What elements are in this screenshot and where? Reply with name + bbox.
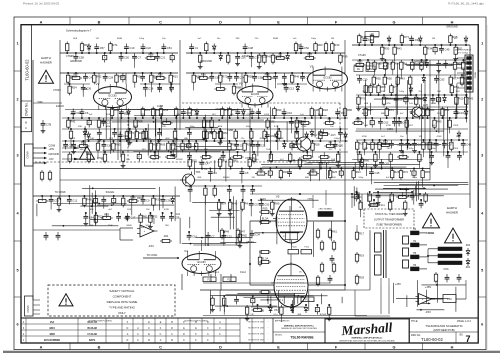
svg-text:470K: 470K [172, 149, 178, 151]
svg-text:C39: C39 [254, 56, 259, 60]
svg-text:33K: 33K [364, 148, 368, 150]
svg-text:C1: C1 [195, 46, 199, 50]
svg-text:E: E [277, 20, 280, 24]
svg-text:HT2: HT2 [203, 168, 208, 171]
svg-text:B250K: B250K [277, 138, 284, 140]
svg-text:B: B [98, 20, 101, 24]
svg-text:R88: R88 [236, 86, 241, 90]
svg-text:10K: 10K [90, 138, 94, 140]
svg-text:SH14: SH14 [428, 232, 435, 235]
svg-text:33K: 33K [162, 126, 166, 128]
svg-text:33K: 33K [362, 91, 366, 93]
svg-text:C57: C57 [254, 203, 259, 207]
svg-text:DENBIGH RD. BLETCHLEY. MILTON: DENBIGH RD. BLETCHLEY. MILTON KEYNES [281, 328, 318, 330]
svg-text:220K: 220K [108, 225, 114, 227]
svg-text:R92: R92 [376, 77, 381, 81]
svg-text:100p: 100p [399, 91, 405, 93]
svg-text:68K: 68K [381, 113, 385, 115]
svg-text:-15V: -15V [425, 310, 431, 314]
svg-text:2: 2 [16, 97, 18, 101]
svg-text:R28: R28 [315, 143, 320, 147]
svg-text:C35: C35 [54, 199, 59, 203]
svg-text:3: 3 [16, 153, 18, 157]
svg-text:+15V: +15V [148, 214, 155, 218]
svg-text:TO CON8: TO CON8 [55, 191, 66, 194]
svg-text:C1BB: C1BB [157, 105, 164, 108]
svg-text:9304: 9304 [49, 327, 55, 330]
svg-text:C22: C22 [227, 235, 232, 239]
svg-text:VR: VR [279, 177, 282, 179]
svg-text:C61: C61 [385, 162, 390, 166]
svg-text:TO CON4: TO CON4 [458, 52, 468, 54]
svg-text:C42: C42 [466, 143, 471, 147]
svg-text:CN1: CN1 [158, 88, 163, 91]
svg-text:1: 1 [16, 41, 18, 45]
svg-text:H: H [451, 20, 454, 24]
svg-text:100p: 100p [358, 177, 364, 179]
svg-text:R24: R24 [72, 86, 77, 90]
svg-text:R10: R10 [386, 97, 391, 101]
svg-text:R29: R29 [359, 276, 364, 280]
svg-text:SAFETY CRITICAL: SAFETY CRITICAL [109, 289, 135, 293]
svg-text:R90: R90 [277, 108, 282, 112]
svg-text:CHG: CHG [443, 268, 448, 271]
svg-text:100p: 100p [190, 126, 196, 128]
svg-text:5: 5 [16, 268, 18, 272]
svg-text:R7: R7 [394, 85, 398, 89]
svg-text:R22: R22 [430, 108, 435, 112]
svg-text:C: C [159, 346, 162, 350]
svg-text:C7: C7 [138, 56, 142, 60]
svg-text:VR: VR [454, 103, 457, 105]
svg-text:FT1&5: FT1&5 [358, 54, 366, 57]
svg-text:F1L8: F1L8 [292, 247, 298, 249]
svg-text:A1H: A1H [423, 104, 428, 107]
svg-text:C: C [159, 20, 162, 24]
svg-text:FT845: FT845 [53, 89, 61, 92]
svg-text:B: B [25, 121, 27, 125]
svg-text:R39: R39 [343, 55, 348, 59]
svg-text:R75: R75 [361, 97, 366, 101]
svg-text:R70: R70 [232, 108, 237, 112]
svg-text:R43: R43 [397, 47, 402, 51]
svg-text:R48: R48 [87, 198, 92, 202]
svg-text:EARTH: EARTH [447, 206, 457, 210]
svg-text:C21: C21 [176, 213, 181, 216]
svg-text:V5: V5 [276, 195, 280, 199]
svg-text:R34: R34 [427, 47, 432, 51]
svg-text:C10: C10 [129, 46, 134, 50]
svg-text:100p: 100p [409, 148, 415, 150]
svg-text:G: G [393, 346, 396, 350]
svg-text:R84: R84 [418, 97, 423, 101]
svg-text:DIRECT INJECT: DIRECT INJECT [455, 50, 472, 52]
svg-text:A: A [40, 346, 43, 350]
svg-text:TYPE AND RATING: TYPE AND RATING [109, 306, 136, 310]
svg-text:5: 5 [481, 268, 483, 272]
svg-text:R11: R11 [222, 159, 227, 163]
svg-text:GROUND: GROUND [70, 59, 82, 63]
svg-text:470K: 470K [362, 136, 368, 138]
svg-text:R58: R58 [425, 170, 430, 174]
svg-text:470K: 470K [301, 126, 307, 128]
svg-text:STOCK No. TXEP-00000: STOCK No. TXEP-00000 [375, 213, 404, 216]
svg-text:R50: R50 [384, 47, 389, 51]
svg-text:F1L1: F1L1 [213, 271, 219, 274]
svg-text:C28: C28 [108, 76, 113, 80]
svg-text:10K: 10K [152, 159, 156, 161]
svg-text:TO CON1: TO CON1 [146, 254, 158, 257]
svg-text:C11: C11 [261, 144, 266, 148]
svg-text:C31: C31 [415, 38, 420, 42]
svg-text:C1B1: C1B1 [387, 128, 394, 131]
svg-text:C19: C19 [459, 111, 464, 115]
svg-text:17-03-98: 17-03-98 [87, 333, 97, 336]
svg-text:68K: 68K [197, 177, 201, 179]
svg-text:C10: C10 [192, 235, 197, 239]
svg-text:BIAS: BIAS [260, 198, 266, 201]
svg-text:A1M: A1M [106, 125, 111, 128]
svg-text:R17: R17 [359, 232, 364, 236]
svg-text:05-06-98: 05-06-98 [87, 327, 97, 330]
svg-text:R69: R69 [381, 85, 386, 89]
svg-text:GROUND: GROUND [200, 59, 212, 63]
svg-text:33K: 33K [78, 126, 82, 128]
svg-text:C7B: C7B [46, 123, 51, 127]
svg-text:CON5: CON5 [26, 305, 30, 313]
svg-text:HT3: HT3 [308, 198, 313, 201]
svg-text:MARSHALL AMPLIFICATION PLC: MARSHALL AMPLIFICATION PLC [284, 324, 315, 327]
svg-text:470K: 470K [164, 209, 170, 211]
svg-text:F1L1: F1L1 [305, 247, 311, 249]
svg-text:C65: C65 [368, 38, 373, 42]
svg-text:ZD2: ZD2 [466, 244, 471, 247]
svg-text:C62: C62 [383, 121, 388, 125]
svg-text:ZD1: ZD1 [466, 266, 471, 269]
svg-text:100p: 100p [431, 148, 437, 150]
svg-text:33K: 33K [204, 149, 208, 151]
svg-text:R50: R50 [387, 77, 392, 81]
svg-text:1M: 1M [331, 38, 334, 40]
svg-text:B: B [98, 346, 101, 350]
svg-text:R85: R85 [160, 143, 165, 147]
svg-text:EARTH: EARTH [41, 56, 50, 60]
svg-text:R23: R23 [173, 75, 178, 79]
svg-text:R38: R38 [314, 108, 319, 112]
svg-text:470K: 470K [70, 114, 76, 116]
svg-text:F1L: F1L [207, 279, 212, 282]
svg-text:68K: 68K [177, 114, 181, 116]
svg-text:C58: C58 [79, 56, 84, 60]
svg-text:VR: VR [96, 38, 99, 40]
svg-text:VR: VR [419, 136, 422, 138]
svg-text:NOTES FOR USE: NOTES FOR USE [248, 322, 264, 324]
svg-text:33K: 33K [203, 159, 207, 161]
svg-text:C50: C50 [264, 203, 269, 207]
svg-text:R23: R23 [356, 170, 361, 174]
svg-text:TSL60 RANGE: TSL60 RANGE [290, 336, 314, 340]
svg-text:CON9: CON9 [26, 151, 30, 159]
svg-text:FT8&5: FT8&5 [66, 55, 74, 58]
svg-text:15A: 15A [50, 321, 55, 324]
svg-text:470K: 470K [264, 114, 270, 116]
svg-text:-15V: -15V [148, 244, 154, 248]
svg-text:R30: R30 [156, 198, 161, 202]
svg-text:R18: R18 [323, 108, 328, 112]
svg-text:DRG No:: DRG No: [411, 334, 421, 337]
svg-text:560R: 560R [117, 38, 123, 40]
svg-text:C9: C9 [146, 199, 150, 203]
svg-text:7: 7 [465, 334, 470, 344]
svg-text:R76: R76 [145, 108, 150, 112]
svg-text:6: 6 [481, 322, 483, 326]
svg-text:100p: 100p [146, 138, 152, 140]
svg-text:R49: R49 [224, 230, 229, 234]
svg-text:+15V: +15V [425, 285, 432, 289]
svg-text:R45: R45 [437, 120, 442, 124]
svg-text:R42: R42 [468, 97, 473, 101]
svg-text:Printed: 16 Jul 2003 09:05: Printed: 16 Jul 2003 09:05 [23, 2, 59, 6]
svg-text:ECC83: ECC83 [323, 76, 332, 79]
svg-text:68K: 68K [159, 114, 163, 116]
svg-text:C16: C16 [287, 111, 292, 115]
svg-text:C7: C7 [211, 235, 215, 239]
svg-text:FT5&5D: FT5&5D [246, 157, 255, 160]
svg-text:VR6: VR6 [298, 120, 303, 123]
svg-text:1: 1 [481, 41, 483, 45]
svg-text:R74: R74 [113, 43, 118, 47]
svg-text:C50: C50 [124, 56, 129, 60]
svg-text:VR: VR [252, 177, 255, 179]
svg-text:100p: 100p [246, 126, 252, 128]
svg-text:33K: 33K [89, 225, 93, 227]
svg-text:50M: 50M [38, 101, 43, 104]
svg-text:ECS NUMBER: ECS NUMBER [44, 339, 60, 342]
svg-text:GROUND: GROUND [446, 25, 458, 29]
svg-text:100p: 100p [412, 177, 418, 179]
svg-text:R82: R82 [242, 234, 247, 238]
svg-text:68K: 68K [305, 177, 309, 179]
svg-text:C22: C22 [146, 46, 151, 50]
svg-text:-15V: -15V [49, 158, 54, 161]
svg-text:R86: R86 [347, 108, 352, 112]
svg-text:TL60-60-02: TL60-60-02 [421, 337, 443, 342]
svg-text:R63: R63 [318, 43, 323, 47]
svg-text:470K: 470K [453, 148, 459, 150]
svg-text:C21: C21 [160, 56, 165, 60]
svg-text:COMPONENT: COMPONENT [113, 295, 132, 299]
svg-text:47K: 47K [71, 138, 75, 140]
svg-text:R40: R40 [232, 202, 237, 206]
svg-text:C47: C47 [205, 162, 210, 166]
svg-text:A1M: A1M [134, 125, 139, 128]
svg-text:NOTES FOR USE: NOTES FOR USE [248, 340, 264, 342]
svg-text:R65: R65 [323, 131, 328, 135]
svg-text:A1H: A1H [331, 134, 336, 137]
svg-text:33K: 33K [381, 91, 385, 93]
svg-text:68K: 68K [184, 138, 188, 140]
svg-text:R53: R53 [163, 108, 168, 112]
svg-text:R61: R61 [332, 230, 337, 234]
svg-text:R24: R24 [164, 235, 169, 238]
svg-text:C66: C66 [215, 76, 220, 80]
svg-text:C34: C34 [255, 233, 260, 237]
svg-text:R32: R32 [377, 62, 382, 66]
svg-text:470K: 470K [436, 136, 442, 138]
svg-text:+15V: +15V [49, 148, 55, 151]
svg-text:560R: 560R [273, 38, 279, 40]
svg-text:C3: C3 [107, 121, 111, 125]
svg-text:ONLY: ONLY [118, 311, 126, 315]
svg-text:C13: C13 [289, 87, 294, 91]
svg-text:C45: C45 [375, 171, 380, 175]
svg-text:TR1: TR1 [312, 134, 317, 137]
svg-text:C20: C20 [363, 78, 368, 82]
svg-text:R1: R1 [298, 43, 302, 47]
svg-text:(MOTHER PCB): (MOTHER PCB) [433, 328, 454, 332]
svg-text:+25V: +25V [395, 283, 401, 286]
svg-text:MARSHALL AMPLIFICATION plc: MARSHALL AMPLIFICATION plc [352, 337, 384, 340]
svg-text:C12: C12 [72, 199, 77, 203]
svg-text:33K: 33K [194, 114, 198, 116]
svg-text:C30: C30 [338, 144, 343, 148]
svg-text:R77: R77 [453, 77, 458, 81]
svg-text:CONN: CONN [475, 71, 477, 78]
svg-text:1M: 1M [432, 38, 435, 40]
svg-text:C1B: C1B [83, 88, 88, 91]
svg-text:C48: C48 [248, 46, 253, 50]
svg-text:ECC83: ECC83 [108, 94, 117, 97]
svg-text:R19: R19 [359, 254, 364, 258]
svg-text:R95: R95 [233, 159, 238, 163]
svg-text:APPROVED BY:: APPROVED BY: [275, 319, 290, 322]
svg-text:HASHER: HASHER [40, 61, 52, 65]
svg-text:P:\TL60_60_02_1443.dgn: P:\TL60_60_02_1443.dgn [448, 2, 484, 6]
svg-text:C18B: C18B [227, 129, 233, 132]
svg-text:10K: 10K [222, 138, 226, 140]
svg-text:33K: 33K [80, 149, 84, 151]
svg-text:100p: 100p [145, 225, 151, 227]
svg-text:ECC83: ECC83 [251, 93, 260, 96]
svg-text:R64: R64 [114, 108, 119, 112]
svg-text:H: H [451, 346, 454, 350]
svg-text:R47: R47 [240, 230, 245, 234]
svg-text:V6: V6 [274, 308, 278, 312]
svg-text:MODEL:: MODEL: [275, 334, 283, 336]
svg-text:HT5: HT5 [370, 33, 375, 36]
svg-text:220K: 220K [453, 125, 459, 127]
svg-text:100p: 100p [139, 38, 145, 40]
svg-text:EL3A: EL3A [262, 217, 269, 221]
svg-text:F1L2: F1L2 [240, 271, 246, 274]
svg-text:R66: R66 [364, 159, 369, 163]
svg-text:A1M: A1M [362, 112, 367, 115]
svg-text:R74: R74 [389, 108, 394, 112]
svg-text:DATE: DATE [89, 339, 96, 342]
svg-text:R4: R4 [245, 202, 249, 206]
svg-text:33K: 33K [128, 138, 132, 140]
svg-text:DWG No.: DWG No. [24, 102, 28, 116]
svg-text:C18: C18 [148, 87, 153, 91]
svg-text:1808: 1808 [49, 333, 55, 336]
svg-text:A (THROUGH PLATES): A (THROUGH PLATES) [88, 320, 112, 323]
svg-text:B250K: B250K [176, 159, 183, 161]
svg-text:560R: 560R [431, 103, 437, 105]
svg-text:C63: C63 [440, 78, 445, 82]
svg-text:C57: C57 [100, 46, 105, 50]
svg-text:1M: 1M [146, 209, 149, 211]
svg-text:C4: C4 [213, 171, 217, 175]
svg-text:100p: 100p [334, 138, 340, 140]
svg-text:ISS: ISS [459, 335, 463, 337]
svg-text:R33: R33 [334, 43, 339, 47]
svg-text:47K: 47K [387, 103, 391, 105]
svg-text:F1L: F1L [227, 279, 232, 282]
svg-text:NOTES FOR USE: NOTES FOR USE [248, 334, 264, 336]
svg-text:NOTES FOR USE: NOTES FOR USE [248, 328, 264, 330]
svg-text:R46: R46 [294, 75, 299, 79]
svg-text:FT3&5: FT3&5 [242, 55, 250, 58]
svg-text:CRO GUARD: CRO GUARD [318, 208, 332, 211]
svg-text:TL60-60-02: TL60-60-02 [24, 59, 29, 81]
svg-text:R43: R43 [400, 77, 405, 81]
svg-text:R55: R55 [263, 207, 268, 211]
svg-text:B250K: B250K [223, 177, 230, 179]
svg-text:F1L: F1L [305, 299, 310, 302]
svg-text:GROUND: GROUND [49, 153, 60, 156]
svg-text:RLB: RLB [383, 66, 388, 68]
svg-text:C54: C54 [167, 46, 172, 50]
svg-text:A (THROUGH PLATES): A (THROUGH PLATES) [184, 320, 208, 323]
svg-text:C41: C41 [89, 76, 94, 80]
svg-text:REPLACE WITH SAME: REPLACE WITH SAME [107, 300, 138, 304]
svg-text:PAGE 1 of 2: PAGE 1 of 2 [457, 320, 471, 323]
svg-text:100p: 100p [311, 38, 317, 40]
svg-text:R26: R26 [394, 170, 399, 174]
svg-text:560R: 560R [126, 225, 132, 227]
svg-text:C59: C59 [166, 199, 171, 203]
svg-text:C: C [25, 126, 27, 130]
svg-text:D: D [219, 346, 222, 350]
svg-text:D: D [219, 20, 222, 24]
svg-text:TITLE:: TITLE: [411, 320, 419, 323]
svg-text:C33: C33 [258, 76, 263, 80]
svg-text:FT1B: FT1B [97, 157, 103, 160]
svg-text:C37: C37 [447, 143, 452, 147]
svg-text:TR3: TR3 [196, 171, 201, 174]
svg-text:R72: R72 [222, 75, 227, 79]
svg-text:HASHER: HASHER [446, 211, 458, 215]
svg-text:E1B1O: E1B1O [56, 105, 64, 108]
svg-text:(TUBE TRANSFORMER): (TUBE TRANSFORMER) [376, 224, 402, 227]
svg-text:10K: 10K [332, 177, 336, 179]
svg-text:OUTPUT TRANSFORMER: OUTPUT TRANSFORMER [374, 219, 404, 222]
svg-text:470K: 470K [386, 125, 392, 127]
svg-text:10K: 10K [437, 91, 441, 93]
svg-text:SIGNAL: SIGNAL [106, 191, 115, 194]
svg-text:DENBIGH ROAD, BLETCHLEY, MILTO: DENBIGH ROAD, BLETCHLEY, MILTON KEYNES, … [339, 339, 395, 342]
svg-text:DN1: DN1 [216, 108, 221, 111]
svg-text:VR: VR [456, 113, 459, 115]
svg-text:GROUND: GROUND [351, 196, 362, 199]
svg-text:33K: 33K [236, 38, 240, 40]
svg-text:A1M: A1M [218, 125, 223, 128]
svg-text:68K: 68K [364, 125, 368, 127]
svg-text:R93: R93 [116, 143, 121, 147]
svg-text:R89: R89 [274, 202, 279, 206]
svg-text:R25: R25 [332, 170, 337, 174]
svg-text:C5: C5 [245, 171, 249, 175]
